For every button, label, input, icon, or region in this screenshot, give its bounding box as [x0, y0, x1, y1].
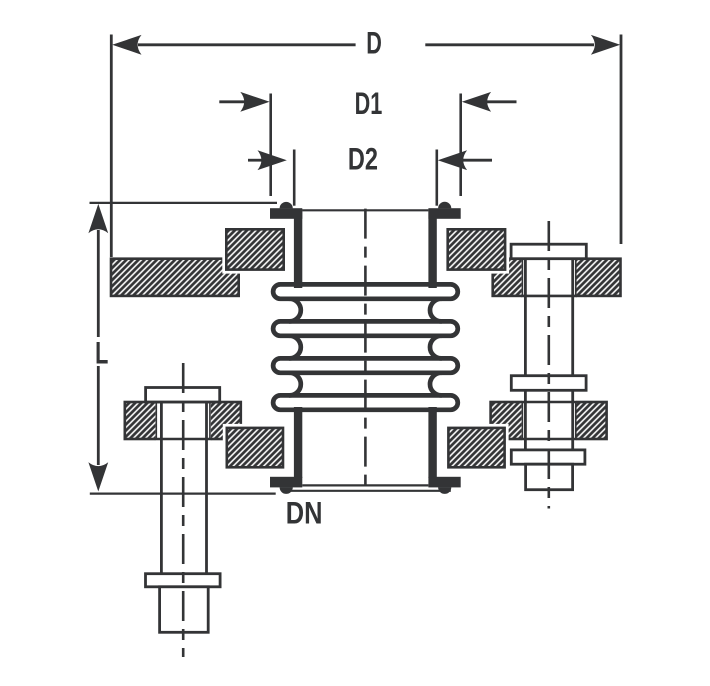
bellows convolution 2 — [273, 321, 458, 335]
dimension D extension line right — [620, 35, 623, 245]
bottom gasket bump left — [280, 487, 293, 494]
bolt B2 upper washer — [511, 376, 586, 391]
dimension D2 arrow-tail left — [248, 159, 262, 162]
bolt hole through bottom-right flange — [521, 399, 577, 441]
pipe wall upper-left — [294, 209, 302, 288]
bolt B2 centerline — [547, 221, 550, 509]
dimension L line lower segment — [97, 366, 100, 465]
dimension L top extension line — [90, 202, 278, 204]
top collar right bar — [428, 208, 460, 219]
dimension D2 extension line left — [293, 150, 296, 206]
svg-text:D2: D2 — [348, 141, 378, 176]
bellows root bulge right 1 — [430, 299, 441, 322]
bolt B2 (right) shaft — [525, 259, 572, 465]
dimension L line upper segment — [97, 230, 100, 337]
dimension D arrow right — [591, 35, 620, 55]
dimension D2 extension line right — [435, 150, 438, 206]
svg-text:L: L — [95, 334, 108, 370]
dimension D line left segment — [138, 43, 356, 46]
bolt B1 (left) shaft — [161, 402, 206, 575]
dimension D extension line left — [110, 35, 113, 258]
bolt B1 nut — [160, 587, 209, 633]
bellows root bulge right 2 — [430, 336, 441, 359]
pipe wall lower-left — [294, 407, 302, 478]
flange top-left big ring — [111, 259, 239, 296]
pipe wall lower-right — [428, 407, 436, 478]
bolt B2 lower washer — [511, 450, 585, 464]
bellows root bulge left 2 — [290, 336, 301, 359]
pipe top face line — [302, 209, 428, 211]
flange bottom-right big ring — [491, 402, 607, 439]
flange top-right big ring — [493, 259, 621, 296]
bolt hole through bottom-left flange — [155, 399, 211, 441]
bellows convolution 4 — [273, 395, 458, 409]
top gasket bump left — [280, 202, 293, 209]
dimension D1 arrow right — [462, 92, 491, 112]
bottom gasket bump right — [438, 487, 451, 494]
svg-text:D: D — [366, 24, 382, 60]
flange bottom-left small collar ring — [227, 428, 283, 467]
dimension L arrow down — [88, 462, 108, 491]
dimension D1 arrow left — [240, 92, 269, 112]
bottom collar right bar — [428, 477, 460, 488]
dimension D1 extension line right — [459, 94, 462, 197]
bolt B2 nut — [526, 464, 573, 490]
flange top-right small collar ring — [448, 229, 505, 269]
bolt B1 washer — [146, 574, 221, 587]
bolt B2 head — [511, 244, 586, 259]
svg-text:D1: D1 — [355, 85, 383, 121]
pipe centerline — [364, 209, 367, 487]
bottom tangent line — [282, 490, 451, 492]
pipe bottom face line — [302, 484, 428, 486]
dimension L / DN bottom extension line — [90, 493, 276, 495]
dimension D line right segment — [425, 43, 594, 46]
dimension L arrow up — [88, 204, 108, 233]
pipe wall upper-right — [428, 209, 436, 288]
bellows convolution 1 — [273, 284, 458, 298]
dimension D1 arrow-tail right — [487, 100, 517, 103]
bellows convolution 3 — [273, 358, 458, 372]
dimension D arrow left — [112, 35, 141, 55]
dimension D2 arrow-tail right — [463, 159, 492, 162]
top gasket bump right — [438, 202, 451, 209]
bolt hole through top-right flange — [521, 256, 577, 298]
bolt B1 head — [146, 388, 220, 403]
dimension D2 arrow right — [438, 150, 467, 170]
dimension D1 extension line left — [269, 94, 272, 197]
flange bottom-left big ring — [125, 402, 241, 439]
bottom collar left bar — [270, 477, 302, 488]
bellows root bulge right 3 — [430, 373, 441, 396]
svg-text:DN: DN — [286, 496, 323, 531]
dimension D1 arrow-tail left — [219, 100, 245, 103]
bolt B1 centerline — [182, 363, 185, 657]
flange bottom-right small collar ring — [448, 428, 504, 467]
flange top-left small collar ring — [226, 229, 283, 269]
top collar left bar — [270, 208, 302, 219]
bellows root bulge left 1 — [290, 299, 301, 322]
dimension D2 arrow left — [258, 150, 287, 170]
bellows root bulge left 3 — [290, 373, 301, 396]
